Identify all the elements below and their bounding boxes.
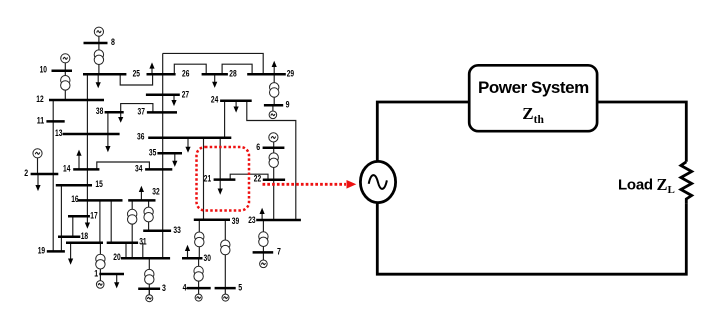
svg-text:7: 7 [277,247,281,257]
svg-text:29: 29 [287,68,294,78]
load arrow bus 35 [174,153,176,161]
svg-text:17: 17 [90,210,97,220]
transformer T29-9 [270,83,279,92]
bus 24 bar [220,100,252,103]
wire hook 38-37 [121,104,153,113]
wire hook 26-28 [174,64,206,74]
load arrow bus 27 [173,95,175,101]
bus 33 bar [143,229,171,232]
wire step 21-22 [230,174,268,180]
wire gen2 stub [37,158,39,174]
bus 31 bar [107,242,138,245]
load arrow bus 25 [97,74,99,83]
bus 9 bar [264,104,283,107]
bus 17 bar [68,215,90,218]
svg-text:4: 4 [183,283,187,293]
svg-text:22: 22 [254,174,261,184]
wire 24-36 vertical [224,101,226,138]
bus 1 bar [99,273,124,276]
svg-text:16: 16 [71,194,78,204]
load arrow bus 28bar [214,74,216,82]
svg-text:6: 6 [256,142,260,152]
bus 11 bar [46,120,64,123]
wire 31-20 vertical right [142,243,144,258]
wire 23-7 through transformer [262,220,264,252]
wire 25-12-13-14-15-16-17 long vertical [86,74,88,223]
svg-text:2: 2 [24,168,28,178]
LEFT ONE-LINE DIAGRAM [38,36,296,299]
load arrow bus 2 [37,174,39,186]
transformer T8-25 [94,50,103,59]
generator G7 [260,260,268,268]
bus 34 bar [145,168,172,171]
generator G5 [222,294,229,301]
generator G9 [269,111,277,119]
svg-text:20: 20 [113,252,120,262]
load arrow bus 17 head [85,223,90,229]
wire 32-33 through transformer [148,200,150,230]
wire 32-20 through transformer [131,200,133,258]
wire gen4 stub [198,288,200,294]
svg-text:9: 9 [286,100,290,110]
generator G10 [61,54,70,63]
wire gen3 stub [148,289,150,295]
up arrow bus 29 [273,67,275,75]
svg-text:32: 32 [152,187,159,197]
resistor Load ZL zigzag [681,162,692,204]
wire 31-20 vertical [125,243,127,258]
up arrow bus 14 [78,155,80,169]
wire 16-31 vertical [110,200,112,242]
svg-text:3: 3 [162,283,166,293]
voltage source [360,161,395,202]
bus 25 bar [83,73,126,76]
transformer T30-4 [194,266,203,275]
bus 7 bar [253,251,274,254]
bus 23 bar [256,219,301,222]
wire top rectangle 26-29 [163,53,264,74]
wire top-left loop [377,102,686,162]
bus 12 bar [49,99,104,102]
svg-text:35: 35 [149,147,156,157]
bus 28 bar [247,73,286,76]
wire 15-19 vertical [60,185,62,251]
transformer T20-3 [145,269,154,278]
bus 10 bar [52,69,73,72]
svg-text:31: 31 [139,237,146,247]
red dotted selection box around bus 21 [197,147,250,211]
svg-text:37: 37 [138,106,145,116]
transformer T6-22 [269,153,278,162]
bus 27 bar [146,94,180,97]
bus 39 bar [194,218,230,221]
svg-text:15: 15 [95,179,102,189]
bus 35 bar [157,152,182,155]
wire 24-23 L-shaped [247,101,296,220]
transformer T32-20 [128,209,137,218]
source sine wave [369,175,387,189]
bus 18b bar [66,242,103,245]
up arrow bus 23 [261,214,263,221]
svg-text:23: 23 [248,215,255,225]
wire 30-4 through transformer [198,258,200,288]
wire 36-39 vertical [203,138,205,220]
bus 32 bar [128,199,155,202]
svg-text:12: 12 [36,94,43,104]
bus 18 bar [58,235,80,238]
svg-text:13: 13 [55,128,62,138]
bus 22 bar [263,178,285,181]
wire bottom loop [377,203,686,275]
wire 12-11-2-19 vertical [52,100,54,251]
svg-text:11: 11 [37,115,44,125]
wire 17-18 vertical [72,216,74,237]
bus 30 bar [182,257,203,260]
svg-text:30: 30 [204,253,211,263]
wire 39-30 through transformer [198,220,200,259]
bus 15 bar [56,184,92,187]
bus 19 bar [47,250,65,253]
svg-text:8: 8 [111,37,115,47]
wire 18b to transformer to bus1 and gen1 [99,243,101,281]
generator G2 [33,149,42,158]
svg-text:39: 39 [232,216,239,226]
svg-text:18: 18 [81,231,88,241]
svg-text:1: 1 [94,269,98,279]
wire gen5 stub [224,288,226,294]
wire under-loop at bus 25 [120,74,152,85]
wire gen6-6-22-23 column through transformer [273,142,275,220]
red dotted arrow to equivalent source [263,183,347,186]
up arrow bus 25b [151,68,153,74]
wire 20-3 through transformer [148,258,150,299]
wire gen8 column through transformer to bus25 [98,36,100,74]
bus 21 bar [214,178,236,181]
bus 36 bar [148,136,231,139]
load arrow bus 38 short [120,112,122,117]
wire gen7 stub [262,252,264,260]
transformer T10-12 [61,76,70,85]
wire gen10 column through transformer to bus12 [64,63,66,101]
generator G8 [94,27,103,36]
bus 5 bar [215,287,236,290]
svg-text:25: 25 [133,68,140,78]
generator G4 [195,294,202,301]
wire hook 28-29 [222,64,252,74]
transformer T18b-1 [96,254,105,263]
power system box [469,65,597,131]
svg-text:27: 27 [182,89,189,99]
wire bridge 14-34 [97,162,150,169]
load arrow bus 18b [70,243,72,259]
svg-text:24: 24 [211,95,218,105]
up arrow bus 30 [187,251,189,259]
bus 6 bar [263,146,285,149]
up arrow bus 32 [140,192,142,201]
svg-text:33: 33 [173,225,180,235]
generator G3 [146,295,153,302]
svg-text:19: 19 [38,246,45,256]
load arrow bus 21 head [218,189,223,195]
transformer T39-30 [195,232,204,241]
generator G6 [269,133,278,142]
svg-text:34: 34 [135,164,142,174]
load arrow bus 24 [235,101,237,107]
svg-text:14: 14 [63,163,70,173]
svg-text:5: 5 [238,283,242,293]
transformer T39-5 [221,240,230,249]
bus 26 bar [202,73,228,76]
svg-text:38: 38 [96,106,103,116]
svg-text:10: 10 [40,65,47,75]
bus 4 bar [187,287,211,290]
load arrow bus 38 long [107,112,109,146]
bus 3 bar [138,288,160,291]
svg-text:21: 21 [204,173,211,183]
generator G1 [96,281,104,289]
wire big vertical 26-36-35-34-33-20 [162,53,164,258]
bus 20 bar [121,257,170,260]
red arrow head [347,180,357,189]
bus 2 bar [31,173,59,176]
transformer T23-7 [259,232,268,241]
bus 8 bar [84,42,108,45]
bus 25b bar [147,73,176,76]
bus 16 bar [78,199,123,202]
bus 14 bar [73,168,99,171]
svg-text:26: 26 [182,69,189,79]
load arrow bus 1 [116,274,118,283]
wire bus9-generator stub [272,105,274,111]
wire 29-9 through transformer [273,74,275,105]
svg-text:36: 36 [137,132,144,142]
svg-text:Power System: Power System [478,78,589,97]
bus 13 bar [63,133,120,136]
bus 37 bar [147,111,177,114]
wire 36-21 vertical with load arrow [219,138,221,189]
wire 39-5 through transformer [224,220,226,288]
load arrow bus 36 [187,138,189,148]
wire 16-18b vertical [99,200,101,242]
transformer T32-33 [144,207,153,216]
bus 38 bar [105,111,124,114]
svg-text:28: 28 [229,69,236,79]
svg-text:Load: Load [618,177,653,194]
